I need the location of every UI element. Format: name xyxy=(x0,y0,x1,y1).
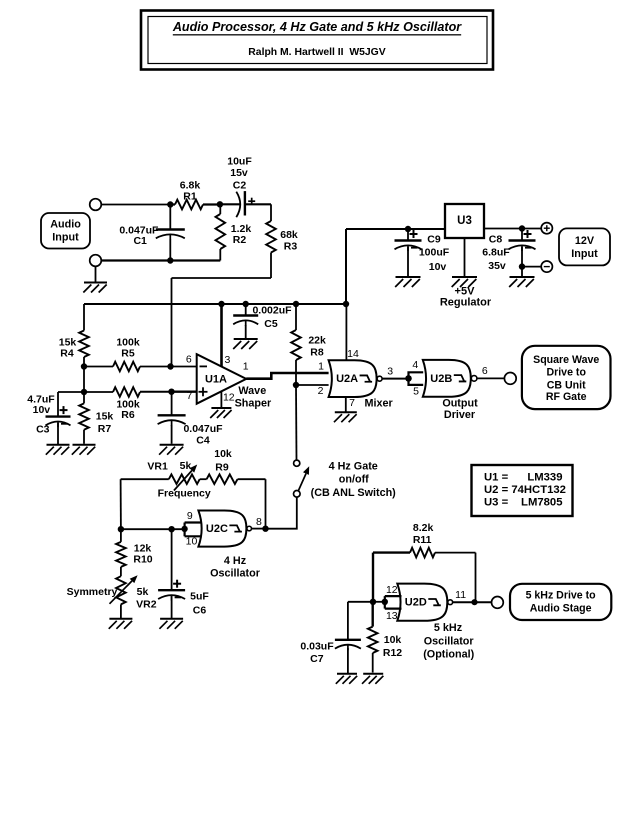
nand gate U2D xyxy=(397,584,447,621)
svg-text:C8: C8 xyxy=(489,234,503,246)
svg-text:C5: C5 xyxy=(264,318,278,330)
resistor R7 xyxy=(83,392,85,403)
svg-text:10uF: 10uF xyxy=(227,156,252,168)
svg-text:5 kHz: 5 kHz xyxy=(434,622,463,634)
svg-text:VR1: VR1 xyxy=(147,460,168,472)
svg-text:10v: 10v xyxy=(429,261,447,273)
node U2D output junction xyxy=(471,599,477,605)
U2C input bracket xyxy=(184,523,186,537)
resistor R3 xyxy=(270,204,272,221)
audio input bottom terminal xyxy=(90,255,102,267)
svg-text:U3: U3 xyxy=(457,215,472,227)
U2A pin7 wire xyxy=(345,397,347,412)
wire U3 input xyxy=(484,228,541,230)
12V minus terminal xyxy=(541,261,552,272)
svg-text:0.002uF: 0.002uF xyxy=(252,305,292,317)
svg-text:Wave: Wave xyxy=(238,385,266,397)
svg-text:C3: C3 xyxy=(36,424,50,436)
ground at U2A pin7 xyxy=(335,411,357,413)
svg-text:0.047uF: 0.047uF xyxy=(183,423,223,435)
svg-text:U2 = 74HCT132: U2 = 74HCT132 xyxy=(484,484,566,496)
svg-text:Input: Input xyxy=(52,232,79,244)
ground at C6 xyxy=(160,618,183,620)
svg-text:5k: 5k xyxy=(137,586,149,598)
svg-text:R5: R5 xyxy=(121,348,135,360)
wire U2A pin2 xyxy=(296,384,329,386)
node U2C input tie xyxy=(181,526,187,532)
U1A pin12 wire xyxy=(220,391,222,407)
resistor R5 xyxy=(84,366,113,368)
svg-text:on/off: on/off xyxy=(339,474,369,486)
wire U2C output xyxy=(251,528,265,530)
svg-text:U1A: U1A xyxy=(205,374,227,386)
svg-text:C6: C6 xyxy=(193,605,207,617)
wire R8 to switch xyxy=(295,385,298,461)
wire C7 branch xyxy=(348,601,373,603)
svg-text:8.2k: 8.2k xyxy=(413,522,434,534)
wire U2D output xyxy=(452,601,491,603)
svg-text:22k: 22k xyxy=(308,335,326,347)
svg-text:1: 1 xyxy=(243,361,249,373)
svg-text:R10: R10 xyxy=(133,553,152,565)
resistor R4 xyxy=(83,304,85,331)
svg-text:LM7805: LM7805 xyxy=(521,497,562,509)
svg-text:10k: 10k xyxy=(384,634,402,646)
svg-text:1.2k: 1.2k xyxy=(231,223,252,235)
svg-text:Regulator: Regulator xyxy=(440,297,492,309)
svg-text:(Optional): (Optional) xyxy=(423,649,474,661)
nand gate U2A xyxy=(329,360,377,397)
svg-text:100uF: 100uF xyxy=(419,247,450,259)
ground at C9 xyxy=(396,276,421,278)
svg-text:68k: 68k xyxy=(280,229,298,241)
node pin6 junction xyxy=(167,363,173,369)
svg-text:U2B: U2B xyxy=(430,373,452,385)
svg-text:U2C: U2C xyxy=(206,523,228,535)
wire input top xyxy=(101,204,170,206)
svg-text:4: 4 xyxy=(412,359,418,371)
potentiometer VR1 xyxy=(169,474,200,484)
resistor R12 xyxy=(372,602,374,627)
svg-text:U2A: U2A xyxy=(336,373,358,385)
node U2B input junction xyxy=(405,375,412,382)
node C1 top junction xyxy=(167,201,173,207)
svg-text:5k: 5k xyxy=(180,460,192,472)
wire R12-U2D tie xyxy=(373,601,385,603)
resistor R10 xyxy=(120,529,122,542)
resistor R1 xyxy=(170,203,175,205)
node rail-U3 xyxy=(343,301,349,307)
svg-text:Square Wave: Square Wave xyxy=(533,354,599,366)
svg-text:Output: Output xyxy=(442,398,478,410)
resistor R2 xyxy=(219,204,221,214)
svg-text:15k: 15k xyxy=(96,411,114,423)
svg-text:VR2: VR2 xyxy=(136,599,157,611)
wire U3 output to rail xyxy=(346,228,445,230)
ground at VR2 xyxy=(109,618,132,620)
svg-text:7: 7 xyxy=(186,390,192,402)
5kHz output terminal xyxy=(492,597,504,609)
svg-text:5: 5 xyxy=(413,386,419,398)
ground at C7 xyxy=(337,673,357,675)
switch top contact xyxy=(294,460,300,466)
node R6-R7-C3 junction xyxy=(81,389,87,395)
svg-text:7: 7 xyxy=(349,397,355,409)
svg-text:2: 2 xyxy=(318,385,324,397)
svg-text:Oscillator: Oscillator xyxy=(424,635,475,647)
svg-text:R4: R4 xyxy=(60,348,74,360)
U1A pin3 wire xyxy=(220,304,223,367)
svg-text:12: 12 xyxy=(223,391,235,403)
wire input bottom xyxy=(101,259,220,261)
svg-text:12: 12 xyxy=(386,584,398,596)
5kHz drive label box xyxy=(510,584,611,620)
wire 4Hz feedback left xyxy=(120,479,122,529)
node U2C output junction xyxy=(262,526,268,532)
wire pin7 xyxy=(172,391,197,393)
svg-text:15v: 15v xyxy=(230,167,248,179)
node C9 junction xyxy=(405,226,411,232)
wire U2A output xyxy=(382,378,408,380)
node rail-R8 xyxy=(293,301,299,307)
svg-text:1: 1 xyxy=(318,361,324,373)
svg-text:Mixer: Mixer xyxy=(364,397,393,409)
svg-text:R11: R11 xyxy=(413,534,432,546)
wire pin6 xyxy=(171,366,197,368)
wire to U2C inputs xyxy=(121,528,185,530)
ground at audio input xyxy=(95,266,97,282)
svg-text:11: 11 xyxy=(455,589,466,601)
svg-text:10k: 10k xyxy=(214,448,232,460)
12V input label box xyxy=(559,228,610,265)
node R4-R5 junction xyxy=(81,363,87,369)
nand gate U2C xyxy=(198,511,246,547)
svg-text:35v: 35v xyxy=(488,260,506,272)
square wave output terminal xyxy=(504,373,516,385)
svg-text:6: 6 xyxy=(482,365,488,377)
capacitor C5 xyxy=(245,304,247,316)
wire switch to U2C output xyxy=(266,497,297,529)
potentiometer VR2 xyxy=(116,576,126,604)
svg-text:Audio Processor, 4 Hz Gate and: Audio Processor, 4 Hz Gate and 5 kHz Osc… xyxy=(172,20,462,34)
svg-text:3: 3 xyxy=(387,366,393,378)
node C8 bottom junction xyxy=(519,263,525,269)
capacitor C3 xyxy=(58,391,84,393)
svg-text:R8: R8 xyxy=(310,346,324,358)
wire 12V minus xyxy=(522,266,541,268)
regulator U3 xyxy=(445,204,484,238)
switch arm xyxy=(298,474,306,491)
resistor R8 xyxy=(295,304,297,330)
svg-text:5 kHz Drive to: 5 kHz Drive to xyxy=(526,590,597,602)
capacitor C7 xyxy=(335,639,361,641)
wire 4Hz feedback right xyxy=(265,479,267,529)
svg-text:Audio: Audio xyxy=(50,219,81,231)
wire +5V rail xyxy=(84,303,346,305)
audio input label box xyxy=(41,213,90,249)
svg-text:Drive to: Drive to xyxy=(546,367,586,379)
svg-text:C2: C2 xyxy=(233,180,247,192)
node R12 junction xyxy=(370,599,376,605)
audio input top terminal xyxy=(90,199,102,211)
U2D input bracket xyxy=(384,596,386,609)
resistor R6 xyxy=(84,391,113,393)
svg-text:R7: R7 xyxy=(98,423,112,435)
svg-text:(CB ANL Switch): (CB ANL Switch) xyxy=(311,487,397,499)
ground at R12 xyxy=(363,673,383,675)
svg-text:14: 14 xyxy=(347,348,359,360)
ground at C4 xyxy=(160,444,184,446)
wire VR2 to ground xyxy=(120,604,122,618)
node R8-pin2 junction xyxy=(293,382,299,388)
wire U2B output xyxy=(477,377,504,379)
wire 4Hz feedback top xyxy=(121,478,169,480)
12V plus terminal xyxy=(541,223,552,234)
svg-text:4 Hz: 4 Hz xyxy=(224,555,247,567)
title block border xyxy=(141,11,493,70)
svg-text:C4: C4 xyxy=(196,435,210,447)
node R10 junction xyxy=(118,526,124,532)
svg-text:9: 9 xyxy=(187,510,193,522)
svg-text:3: 3 xyxy=(224,354,230,366)
ground at U1A pin12 xyxy=(211,407,231,409)
svg-text:R12: R12 xyxy=(383,647,402,659)
svg-text:6: 6 xyxy=(186,354,192,366)
svg-text:U3 =: U3 = xyxy=(484,497,509,509)
svg-text:Symmetry: Symmetry xyxy=(67,586,118,598)
svg-text:0.03uF: 0.03uF xyxy=(300,640,334,652)
svg-text:13: 13 xyxy=(386,610,398,622)
svg-text:C7: C7 xyxy=(310,653,324,665)
wire R11 right vertical xyxy=(475,553,477,602)
wire U2B pin4 xyxy=(409,372,424,378)
node R1-R2-C2 junction xyxy=(217,201,223,207)
capacitor C4 xyxy=(171,392,173,416)
ground at C3 xyxy=(47,444,70,446)
node C1 bottom junction xyxy=(167,257,173,263)
svg-text:R3: R3 xyxy=(284,240,298,252)
capacitor C2 xyxy=(220,203,240,205)
svg-text:R6: R6 xyxy=(121,409,135,421)
ground at C5 xyxy=(234,338,258,340)
svg-text:CB Unit: CB Unit xyxy=(547,379,586,391)
svg-text:C9: C9 xyxy=(427,234,441,246)
svg-text:R1: R1 xyxy=(183,190,197,202)
svg-text:LM339: LM339 xyxy=(527,472,562,484)
resistor R9 xyxy=(207,474,238,484)
svg-text:4 Hz Gate: 4 Hz Gate xyxy=(329,460,378,472)
node rail-pin3 xyxy=(218,301,224,307)
node rail-C5 xyxy=(243,301,249,307)
svg-text:C1: C1 xyxy=(133,235,147,247)
capacitor C6 xyxy=(171,529,173,590)
U2A pin14 wire xyxy=(345,304,347,360)
ground at C8 xyxy=(510,276,535,278)
svg-text:Shaper: Shaper xyxy=(235,397,272,409)
ground at U3 xyxy=(464,238,466,277)
node U2D input tie xyxy=(382,599,388,605)
svg-text:Oscillator: Oscillator xyxy=(210,567,261,579)
svg-text:12V: 12V xyxy=(575,235,595,247)
node C8 top junction xyxy=(519,225,525,231)
wire C2 to R3 xyxy=(245,203,271,205)
svg-text:8: 8 xyxy=(256,516,262,528)
svg-text:RF Gate: RF Gate xyxy=(546,391,587,403)
svg-text:R2: R2 xyxy=(233,234,247,246)
parts list box xyxy=(472,465,573,516)
wire U2B pin5 xyxy=(409,378,424,385)
wire R11 left vertical xyxy=(372,553,374,602)
svg-text:10: 10 xyxy=(186,535,198,547)
wire R3 bottom to pin6 node xyxy=(172,277,272,279)
svg-text:Audio Stage: Audio Stage xyxy=(530,602,592,614)
nand gate U2B xyxy=(423,360,471,397)
svg-text:10v: 10v xyxy=(33,404,51,416)
resistor R11 xyxy=(373,551,410,553)
svg-text:R9: R9 xyxy=(215,461,229,473)
svg-text:Driver: Driver xyxy=(444,409,476,421)
ground at R7 xyxy=(73,444,96,446)
svg-text:U1 =: U1 = xyxy=(484,472,509,484)
capacitor C1 xyxy=(169,205,171,230)
capacitor C9 xyxy=(407,229,409,241)
op-amp U1A xyxy=(197,354,247,404)
capacitor C8 xyxy=(521,229,523,241)
node C6 junction xyxy=(168,526,174,532)
svg-text:6.8uF: 6.8uF xyxy=(482,247,510,259)
svg-text:Ralph M. Hartwell II W5JGV: Ralph M. Hartwell II W5JGV xyxy=(248,47,385,58)
switch bottom contact xyxy=(294,491,301,498)
wire U1A output xyxy=(246,373,328,379)
svg-text:Input: Input xyxy=(571,248,598,260)
wire R4 to R7 xyxy=(83,367,85,393)
node pin7 junction xyxy=(168,389,174,395)
svg-text:5uF: 5uF xyxy=(190,591,209,603)
svg-text:U2D: U2D xyxy=(405,597,427,609)
svg-text:Frequency: Frequency xyxy=(158,488,211,500)
square wave label box xyxy=(522,346,611,409)
